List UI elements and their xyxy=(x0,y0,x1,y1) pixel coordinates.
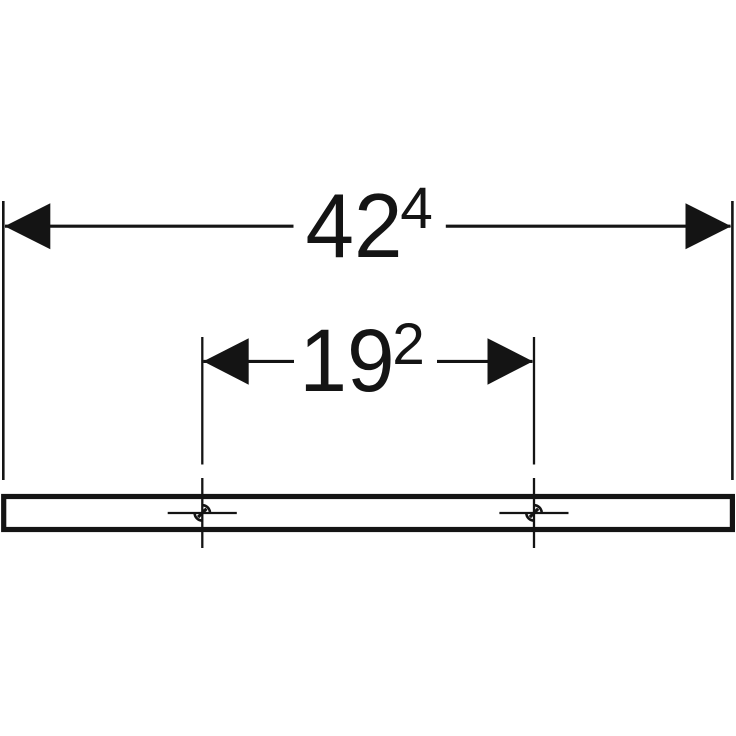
centre mark right: vertical axis line xyxy=(533,478,535,548)
dimension line 19.2 left segment xyxy=(204,360,295,363)
extension line right (overall width) xyxy=(731,201,734,480)
arrowhead 19.2 left xyxy=(203,338,248,385)
centre mark left: NE quadrant arc xyxy=(202,505,210,513)
arrowhead 19.2 right xyxy=(488,338,533,385)
svg-text:19: 19 xyxy=(299,310,394,410)
centre mark right: horizontal axis line xyxy=(499,512,568,514)
centre mark left: diagonal slash xyxy=(198,509,206,517)
centre mark left: vertical axis line xyxy=(201,478,203,548)
centre mark right: NE quadrant arc xyxy=(534,505,542,513)
panel outline (front edge of shelf) xyxy=(4,497,733,530)
dimension line 19.2 right segment xyxy=(437,360,533,363)
extension line right (hole distance 19.2) xyxy=(533,337,535,465)
svg-text:42: 42 xyxy=(306,176,403,277)
svg-text:2: 2 xyxy=(392,312,425,377)
centre mark right: SW quadrant arc xyxy=(526,513,534,521)
svg-text:4: 4 xyxy=(400,176,433,241)
extension line left (overall width) xyxy=(2,201,5,480)
arrowhead 42.4 left xyxy=(5,203,51,249)
centre mark left: horizontal axis line xyxy=(168,512,237,514)
dimension line 42.4 left segment xyxy=(5,225,294,228)
centre mark left: SW quadrant arc xyxy=(195,513,203,521)
arrowhead 42.4 right xyxy=(686,203,732,249)
extension line left (hole distance 19.2) xyxy=(201,337,203,465)
dimension line 42.4 right segment xyxy=(446,225,731,228)
centre mark right: diagonal slash xyxy=(530,509,538,517)
